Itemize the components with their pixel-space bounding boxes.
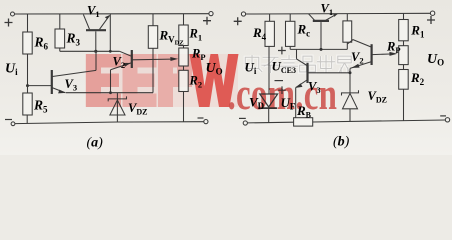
svg-text:(b): (b) <box>333 135 350 150</box>
wire R6 top lead <box>27 14 29 32</box>
transistor V2 emitter with arrow (b) <box>350 62 371 69</box>
wire V1 base node horizontal (b) <box>290 48 347 50</box>
resistor R6 <box>23 32 32 54</box>
transistor V2 bar (b) <box>371 44 373 65</box>
transistor V1 emitter with arrow <box>100 15 110 29</box>
minus mark UF top (b) <box>275 80 284 82</box>
minus mark (a) bottom-right <box>198 117 204 119</box>
transistor V1 bar (b) <box>313 20 329 22</box>
transistor V3 emitter with arrow (b) <box>296 80 307 88</box>
top rail (a) <box>15 13 210 15</box>
resistor R1 (a) <box>179 25 188 46</box>
input + terminal (b) top-left <box>241 12 245 16</box>
wire V2 base to Rp wiper with arrow <box>132 58 171 61</box>
watermark EEPW letter E2 <box>123 54 157 107</box>
transistor V1 collector (b) <box>309 14 315 20</box>
resistor R2 (a) <box>179 70 188 91</box>
wire RVDZ top lead <box>152 14 154 26</box>
watermark EEPW letter E1 <box>86 54 121 107</box>
wire R3 top lead <box>59 14 61 29</box>
resistor R3 <box>55 29 65 48</box>
output + terminal (b) top-right <box>430 11 434 15</box>
wire R2 bottom lead (a) <box>183 92 185 122</box>
node R6/R5/V3 base junction <box>26 84 29 87</box>
wire V3 base <box>28 85 52 87</box>
transistor V1 emitter with arrow (b) <box>326 14 338 20</box>
transistor V3 bar <box>51 70 53 94</box>
wire V1 base down <box>95 31 97 51</box>
zener diode VDZ (a) triangle <box>110 100 125 115</box>
wire V2 emitter down <box>110 70 112 93</box>
minus mark (a) bottom-left <box>5 119 12 121</box>
resistor Rc <box>286 21 295 46</box>
input - terminal (b) bottom-left <box>243 121 247 125</box>
wire R1-Rp lead (a) <box>183 46 185 49</box>
node V3 base / zener junction (b) <box>349 71 352 74</box>
transistor V1 base bar <box>86 29 106 31</box>
wire V3 base to zener node (b) <box>308 72 350 74</box>
wire V2 base to Rp wiper with arrow (b) <box>372 53 390 56</box>
svg-text:(a): (a) <box>87 136 104 151</box>
plus mark (a) top-right <box>203 17 211 25</box>
node V2 emitter / zener wire <box>109 91 112 94</box>
transistor V3 emitter with arrow <box>52 88 65 93</box>
wire V3 collector up to Rc node (b) <box>296 49 298 59</box>
wire V3 emitter down to RB (b) <box>295 88 297 118</box>
zener diode VDZ (b) triangle <box>343 93 358 108</box>
wire VDZ bottom lead (b) <box>349 109 351 121</box>
wire V3 collector up to base node <box>95 51 97 70</box>
wire R5 top lead <box>27 86 29 93</box>
diode VD triangle <box>260 94 278 107</box>
output + terminal (a) top-right <box>209 12 213 16</box>
watermark EEPW background tint <box>85 54 238 107</box>
wire zener node horizontal <box>66 92 153 94</box>
resistor R2 (b) <box>399 70 409 90</box>
wire R3 bottom lead <box>59 48 61 51</box>
resistor R5 <box>23 93 32 115</box>
bottom rail (b) left of RB <box>247 121 293 124</box>
wire R6 bottom to node <box>27 54 29 86</box>
bottom rail (b) right of RB <box>313 120 446 122</box>
wire R4 bottom to diode VD <box>268 46 270 94</box>
node emitter tap junction <box>109 50 112 53</box>
wire V2 emitter down to zener (b) <box>349 68 351 93</box>
wire R1 top lead (a) <box>183 14 185 25</box>
wire Rc bottom lead <box>289 46 291 49</box>
wire R5 bottom lead <box>26 115 28 124</box>
resistor R1 (b) <box>399 20 409 41</box>
transistor V3 bar (b) <box>306 63 308 83</box>
input - terminal (a) bottom-left <box>11 122 15 126</box>
transistor V3 collector diagonal <box>52 70 96 76</box>
wire R1 top lead (b) <box>403 14 405 20</box>
potentiometer Rp (b) <box>399 46 409 65</box>
wire Rp-R2 lead (a) <box>183 66 185 70</box>
wire Rc top lead <box>289 14 291 21</box>
watermark EEPW letter P <box>158 54 192 107</box>
node V1 base junction (b) <box>320 48 323 51</box>
plus mark (b) top-right <box>427 16 435 24</box>
plus mark (b) top-left <box>234 17 242 25</box>
wire R3 top lead (b, unlabeled resistor) <box>346 14 348 21</box>
wire V1 emitter tap down <box>109 14 111 51</box>
output - terminal (a) bottom-right <box>204 120 208 124</box>
transistor V3 collector (b) <box>297 59 308 66</box>
potentiometer Rp (a) <box>179 48 188 66</box>
wire R3 bottom lead (b) <box>346 42 348 49</box>
transistor V2 collector (b) <box>347 40 371 47</box>
wire R2 bottom lead (b) <box>403 89 405 120</box>
plus mark (a) top-left <box>5 19 13 27</box>
minus mark (b) bottom-right <box>440 115 446 117</box>
wire RVDZ bottom lead <box>152 48 154 92</box>
wire Rp-R2 lead (b) <box>403 65 405 70</box>
bottom rail (a) <box>15 122 204 124</box>
wire R4 top lead <box>269 14 271 21</box>
watermark chinese gray text 电子产品世界 (drawn as glyph-like strokes) <box>245 55 351 73</box>
wire R1-Rp lead (b) <box>403 41 405 46</box>
transistor V2 bar <box>131 50 133 68</box>
wire zener VDZ top lead <box>116 93 118 122</box>
output - terminal (b) bottom-right <box>445 118 449 122</box>
node V1 base junction <box>94 50 97 53</box>
zener diode VDZ (b) cathode bar with hooks <box>342 90 359 95</box>
watermark EEPW letter W <box>190 54 239 107</box>
resistor RVDZ <box>148 26 157 49</box>
transistor V2 emitter with arrow (PNP, arrow toward bar) <box>111 63 132 70</box>
wire V1 base down (b) <box>320 22 322 49</box>
plus mark UCE3 (b) <box>278 47 286 55</box>
wire VD bottom lead <box>268 108 270 123</box>
wire diagonal to V2 <box>120 51 132 56</box>
resistor unlabeled (b) <box>343 21 352 42</box>
minus mark (b) bottom-left <box>239 117 246 119</box>
wire base node horizontal <box>60 50 120 52</box>
diode VD cathode bar <box>260 107 277 109</box>
top rail (b) <box>246 12 431 15</box>
resistor R4 <box>265 21 274 46</box>
plus mark UF (b) <box>278 86 286 94</box>
zener diode VDZ (a) cathode bar with hooks <box>108 96 126 101</box>
input + terminal (a) top-left <box>11 12 15 16</box>
transistor V1 collector <box>83 15 89 30</box>
resistor RB (horizontal, in ground rail) <box>294 118 313 126</box>
